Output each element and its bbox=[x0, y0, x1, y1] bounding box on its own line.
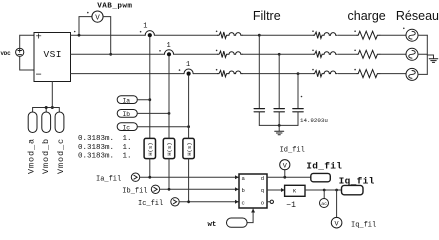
wire tap1 below filter bbox=[149, 159, 151, 178]
arrow into gain K bbox=[281, 188, 285, 192]
resistor reseau phase C bbox=[357, 70, 380, 78]
svg-text:1: 1 bbox=[186, 61, 190, 69]
wire wt source to block bottom bbox=[247, 209, 253, 223]
svg-text:c: c bbox=[242, 200, 245, 207]
wire phase A resistor to source bbox=[380, 34, 406, 36]
filter block H(s) phase C bbox=[183, 138, 194, 158]
source Vmod_a bbox=[28, 112, 37, 133]
inductor-resistor charge phase B bbox=[314, 51, 338, 57]
polarity mark voltmeter bbox=[87, 12, 89, 14]
svg-text:Ic: Ic bbox=[123, 124, 131, 131]
wire bus to ground bbox=[427, 55, 433, 59]
pin o stub and open terminal bbox=[267, 201, 270, 203]
svg-text:H(s): H(s) bbox=[147, 142, 154, 155]
junction capacitor C2 node bbox=[278, 53, 281, 56]
wire phase B inductor to cap node bbox=[243, 53, 280, 55]
resistor reseau phase B bbox=[357, 50, 380, 58]
svg-text:VAB_pwm: VAB_pwm bbox=[97, 3, 132, 11]
junction q-voltmeter bbox=[335, 189, 338, 192]
polarity mark phase A bbox=[74, 31, 76, 33]
wire to voltmeter Id_fil bbox=[284, 170, 286, 177]
source Vmod_b bbox=[42, 112, 51, 133]
wire phase B charge to resistor bbox=[338, 53, 357, 55]
svg-text:Vmod_c: Vmod_c bbox=[56, 138, 66, 174]
svg-text:V: V bbox=[95, 14, 100, 22]
inductor L2 filter phase B bbox=[218, 51, 243, 57]
svg-text:Id_fil: Id_fil bbox=[280, 147, 305, 155]
voltmeter tap wire left bbox=[79, 17, 92, 36]
source Vmod_c bbox=[55, 112, 64, 133]
polarity mark S1 bbox=[140, 31, 142, 33]
current sensor S1 bbox=[145, 31, 154, 38]
wire phase A from VSI to sensor bbox=[71, 34, 146, 36]
svg-text:+: + bbox=[36, 32, 42, 44]
ac probe bbox=[320, 199, 329, 208]
wire G1 to right bus bbox=[418, 34, 427, 36]
wire phase A charge to reseau resistor bbox=[338, 34, 357, 36]
wire phase B sensor to filter bbox=[174, 53, 218, 55]
svg-text:1: 1 bbox=[167, 42, 171, 50]
wire Ic_fil to block pin c bbox=[179, 201, 238, 203]
wire sensor S1 tap bbox=[149, 37, 151, 138]
wire pin q to gain K bbox=[267, 189, 285, 191]
inductor L1 filter phase A bbox=[218, 32, 243, 38]
svg-text:a: a bbox=[242, 175, 246, 182]
svg-text:Vmod_a: Vmod_a bbox=[27, 138, 37, 174]
wire G2 to right bus bbox=[418, 53, 427, 55]
source wt bbox=[227, 218, 248, 227]
svg-text:−1: −1 bbox=[286, 201, 296, 210]
wire VDC- to VSI bbox=[20, 56, 34, 70]
junction d-voltmeter bbox=[283, 176, 286, 179]
junction bus-Vmod_b bbox=[45, 106, 48, 109]
current sensor S2 bbox=[164, 50, 173, 57]
polarity mark charge C bbox=[312, 69, 314, 71]
gain block K bbox=[285, 185, 305, 196]
wire Ia to tap1 bbox=[137, 99, 150, 101]
wire sensor S3 tap bbox=[188, 76, 190, 139]
junction capacitor C1 node bbox=[258, 34, 261, 37]
voltmeter Iq_fil bbox=[331, 217, 342, 228]
polarity mark L3 bbox=[216, 69, 218, 71]
label node Ic bbox=[117, 123, 137, 131]
arrow into pin c bbox=[235, 200, 239, 204]
svg-text:b: b bbox=[242, 187, 245, 194]
svg-text:0.3183m.: 0.3183m. bbox=[78, 153, 114, 161]
current sensor S3 bbox=[184, 69, 193, 76]
wire pin d to probe Id_fil bbox=[267, 176, 311, 178]
wire modulator bus bbox=[33, 108, 60, 113]
probe node Iq_fil bbox=[342, 185, 364, 194]
junction tap3-Ic bbox=[187, 125, 190, 128]
junction tap1-wire a bbox=[148, 176, 151, 179]
wire phase B resistor to source bbox=[380, 53, 406, 55]
inductor-resistor charge phase A bbox=[314, 32, 338, 38]
svg-text:q: q bbox=[261, 187, 264, 194]
capacitor C3 bbox=[293, 74, 303, 126]
label node Ia bbox=[117, 96, 137, 104]
inductor-resistor charge phase C bbox=[314, 70, 338, 76]
voltmeter Id_fil bbox=[280, 160, 290, 170]
svg-text:VSI: VSI bbox=[44, 49, 62, 60]
wire capacitor bus bbox=[259, 124, 298, 126]
svg-text:Ia_fil: Ia_fil bbox=[96, 175, 121, 183]
arrow into pin b bbox=[235, 187, 239, 191]
svg-text:d: d bbox=[261, 175, 264, 182]
svg-text:Ic_fil: Ic_fil bbox=[138, 200, 163, 208]
svg-text:H(s): H(s) bbox=[166, 142, 173, 155]
polarity mark reseau B bbox=[354, 50, 356, 52]
svg-text:H(s): H(s) bbox=[186, 142, 193, 155]
voltmeter tap wire right bbox=[103, 17, 111, 55]
polarity mark reseau C bbox=[354, 69, 356, 71]
svg-text:K: K bbox=[293, 188, 297, 195]
svg-text:wt: wt bbox=[208, 221, 217, 229]
wire Ia_fil to block pin a bbox=[140, 176, 239, 178]
wire Ib to tap2 bbox=[137, 112, 169, 114]
resistor reseau phase A bbox=[357, 31, 380, 39]
ac source G2 bbox=[406, 48, 418, 60]
polarity mark G1 bbox=[403, 28, 405, 30]
wire phase C inductor to cap node bbox=[243, 73, 299, 75]
junction q-ac bbox=[323, 189, 326, 192]
inverter block U1 VSI bbox=[34, 33, 71, 82]
svg-text:1.: 1. bbox=[123, 135, 132, 143]
svg-text:1.: 1. bbox=[123, 144, 132, 152]
wire to voltmeter Iq_fil bbox=[336, 190, 338, 217]
junction tap3-wire c bbox=[187, 200, 190, 203]
polarity mark reseau A bbox=[354, 30, 356, 32]
junction tap2-wire b bbox=[168, 188, 171, 191]
ground filter bbox=[275, 131, 284, 135]
label node Ib bbox=[117, 110, 137, 118]
wire phase B cap node to charge bbox=[279, 53, 313, 55]
wire to ac probe bbox=[323, 190, 325, 198]
wire phase C cap node to charge bbox=[298, 73, 314, 75]
wire phase C sensor to filter bbox=[193, 73, 217, 75]
junction tap1-Ia bbox=[148, 98, 151, 101]
svg-text:Réseau: Réseau bbox=[396, 9, 439, 23]
junction capacitor C3 node bbox=[297, 72, 300, 75]
wire phase C resistor to source bbox=[380, 73, 406, 75]
svg-text:VDC: VDC bbox=[1, 50, 12, 57]
junction voltmeter-phase A bbox=[78, 34, 81, 37]
abc to dq transform block bbox=[239, 174, 267, 208]
svg-text:Iq_fil: Iq_fil bbox=[351, 221, 376, 229]
probe node Id_fil bbox=[311, 173, 331, 181]
wire tap2 below filter bbox=[168, 159, 170, 190]
current probe Ib_fil bbox=[151, 185, 159, 193]
wire cap bus to ground bbox=[278, 125, 280, 131]
junction VSI-bus bbox=[51, 106, 54, 109]
svg-text:Ib: Ib bbox=[123, 111, 131, 118]
filter block H(s) phase A bbox=[144, 138, 155, 158]
svg-text:o: o bbox=[261, 200, 264, 207]
voltmeter VAB_pwm bbox=[92, 11, 103, 22]
capacitor C1 bbox=[254, 35, 264, 125]
wire phase A sensor to filter inductor bbox=[154, 34, 217, 36]
wire VDC+ to VSI bbox=[20, 35, 34, 48]
svg-text:1: 1 bbox=[143, 23, 147, 31]
polarity mark L2 bbox=[216, 50, 218, 52]
arrow into block bottom bbox=[251, 209, 255, 213]
svg-text:Ia: Ia bbox=[123, 97, 131, 104]
svg-text:ac: ac bbox=[321, 202, 327, 207]
wire Ic to tap3 bbox=[137, 126, 188, 128]
svg-text:0.3183m.: 0.3183m. bbox=[78, 144, 114, 152]
svg-text:Ib_fil: Ib_fil bbox=[122, 187, 147, 195]
junction voltmeter-phase B bbox=[109, 53, 112, 56]
inductor L3 filter phase C bbox=[218, 70, 243, 76]
arrow into pin a bbox=[235, 175, 239, 179]
svg-text:1.: 1. bbox=[123, 153, 132, 161]
ac source G1 bbox=[406, 29, 418, 41]
wire right neutral bus bbox=[426, 35, 428, 74]
svg-text:Filtre: Filtre bbox=[253, 9, 281, 23]
polarity mark L1 bbox=[216, 31, 218, 33]
wire phase C charge to resistor bbox=[338, 73, 357, 75]
wire VSI bottom to modulator bus bbox=[51, 82, 53, 108]
svg-text:0.3183m.: 0.3183m. bbox=[78, 135, 114, 143]
wire phase C from VSI to sensor bbox=[71, 73, 185, 75]
wire phase A inductor to cap node bbox=[243, 34, 260, 36]
svg-text:Id_fil: Id_fil bbox=[306, 161, 342, 172]
ground reseau bbox=[429, 59, 438, 63]
filter block H(s) phase B bbox=[163, 138, 174, 158]
wire tap3 below filter bbox=[188, 159, 190, 202]
polarity mark charge B bbox=[312, 50, 314, 52]
wire sensor S2 tap bbox=[168, 56, 170, 138]
svg-text:charge: charge bbox=[348, 9, 386, 23]
polarity mark S3 bbox=[179, 69, 181, 71]
ac source G3 bbox=[406, 68, 418, 80]
wire phase A cap node to charge bbox=[259, 34, 313, 36]
wire G3 to right bus bbox=[418, 73, 427, 75]
polarity mark charge A bbox=[312, 30, 314, 32]
svg-text:Vmod_b: Vmod_b bbox=[41, 138, 51, 174]
current probe Ia_fil bbox=[131, 173, 139, 181]
svg-text:−: − bbox=[36, 70, 42, 82]
svg-text:14.9203u: 14.9203u bbox=[300, 117, 328, 124]
wire gain K to probe Iq_fil bbox=[305, 189, 342, 191]
junction tap2-Ib bbox=[168, 112, 171, 115]
wire Ib_fil to block pin b bbox=[160, 188, 239, 190]
polarity mark C3 bbox=[301, 96, 303, 98]
current probe Ic_fil bbox=[171, 198, 179, 206]
wire phase B from VSI to sensor bbox=[71, 53, 165, 55]
capacitor C2 bbox=[274, 54, 284, 125]
junction cap bus ground bbox=[278, 124, 281, 127]
polarity mark S2 bbox=[159, 50, 161, 52]
dc source VDC bbox=[16, 48, 24, 56]
